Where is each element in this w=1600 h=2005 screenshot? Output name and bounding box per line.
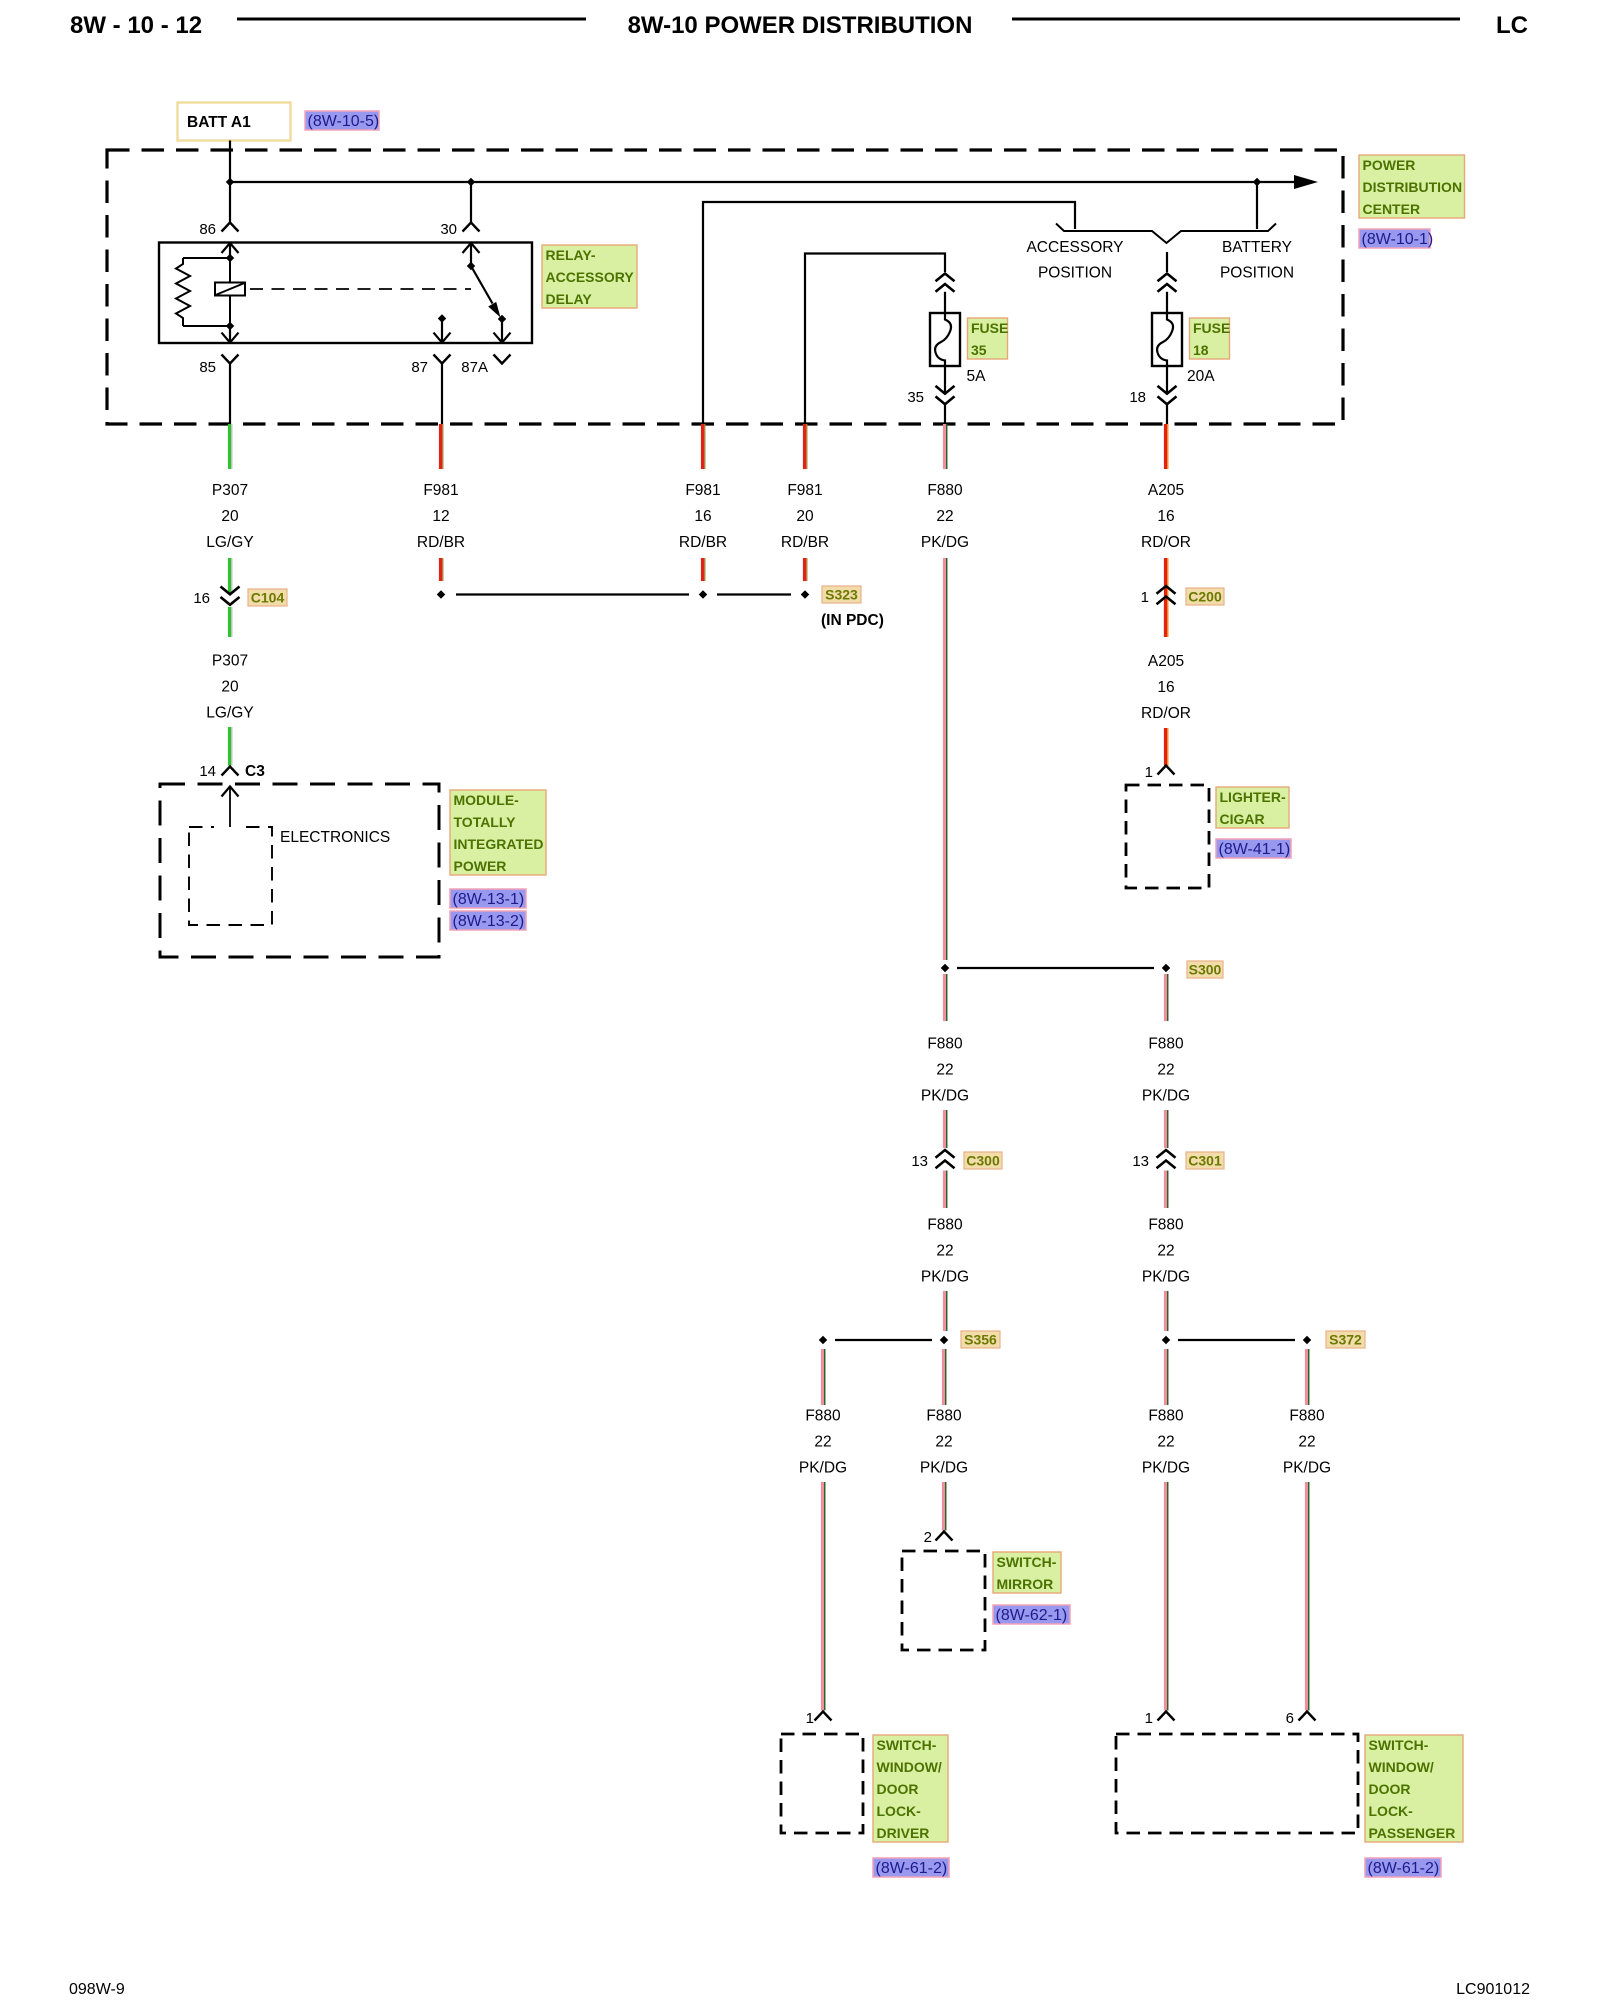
svg-text:FUSE: FUSE bbox=[1193, 320, 1230, 336]
relay switch arm bbox=[471, 266, 493, 304]
svg-text:PK/DG: PK/DG bbox=[799, 1460, 847, 1477]
wire F880 22 from fuse 35 bbox=[943, 424, 946, 469]
relay switch pivot node bbox=[467, 262, 475, 270]
svg-text:RD/OR: RD/OR bbox=[1141, 534, 1191, 551]
svg-text:RD/BR: RD/BR bbox=[781, 534, 829, 551]
svg-text:SWITCH-: SWITCH- bbox=[877, 1737, 937, 1753]
svg-text:C200: C200 bbox=[1188, 589, 1222, 605]
svg-text:18: 18 bbox=[1193, 342, 1209, 358]
wire battery position from bus bbox=[1256, 182, 1258, 229]
svg-text:F880: F880 bbox=[1289, 1408, 1325, 1425]
svg-text:1: 1 bbox=[1145, 764, 1153, 781]
svg-text:22: 22 bbox=[814, 1434, 831, 1451]
svg-text:LG/GY: LG/GY bbox=[206, 705, 253, 722]
pin 6 fork at passenger switch bbox=[1299, 1712, 1316, 1721]
wire F880 22 to mirror switch bbox=[942, 1349, 945, 1405]
svg-text:13: 13 bbox=[911, 1153, 928, 1170]
wire bus to relay pin 30 bbox=[470, 182, 472, 222]
svg-text:POWER: POWER bbox=[1363, 157, 1416, 173]
svg-text:(8W-10-5): (8W-10-5) bbox=[308, 113, 380, 130]
splice node S323 at F981 16 bbox=[699, 590, 707, 598]
svg-text:LOCK-: LOCK- bbox=[1369, 1803, 1414, 1819]
svg-text:C301: C301 bbox=[1188, 1153, 1222, 1169]
svg-text:20A: 20A bbox=[1187, 368, 1215, 385]
reference (8W-10-1) bbox=[1359, 229, 1430, 248]
svg-text:WINDOW/: WINDOW/ bbox=[877, 1759, 942, 1775]
svg-text:(8W-41-1): (8W-41-1) bbox=[1219, 841, 1291, 858]
connector C301 chevrons bbox=[1157, 1150, 1176, 1158]
relay coil bbox=[229, 258, 231, 283]
splice node S356 left bbox=[819, 1336, 827, 1344]
svg-text:098W-9: 098W-9 bbox=[69, 1981, 125, 1998]
pin 30 fork bbox=[463, 223, 480, 232]
svg-text:16: 16 bbox=[1157, 679, 1174, 696]
fuse 35 bbox=[930, 313, 960, 366]
splice node S323 at F981 20 bbox=[801, 590, 809, 598]
label FUSE 18 bbox=[1190, 318, 1230, 359]
svg-text:PASSENGER: PASSENGER bbox=[1369, 1825, 1456, 1841]
svg-text:87: 87 bbox=[411, 359, 428, 376]
svg-text:PK/DG: PK/DG bbox=[1283, 1460, 1331, 1477]
svg-text:22: 22 bbox=[1157, 1062, 1174, 1079]
svg-text:POSITION: POSITION bbox=[1038, 265, 1112, 282]
pin 85 fork bbox=[222, 355, 239, 364]
header rule left bbox=[237, 18, 586, 21]
svg-text:S300: S300 bbox=[1189, 962, 1222, 978]
label LIGHTER-CIGAR bbox=[1216, 787, 1289, 828]
svg-text:(8W-13-2): (8W-13-2) bbox=[453, 913, 525, 930]
svg-text:POSITION: POSITION bbox=[1220, 265, 1294, 282]
svg-text:C104: C104 bbox=[251, 590, 285, 606]
svg-text:F880: F880 bbox=[1148, 1036, 1184, 1053]
connector C300 chevrons bbox=[936, 1150, 955, 1158]
wire F880 22 below C300 bbox=[943, 1171, 946, 1209]
svg-text:30: 30 bbox=[440, 221, 457, 238]
connector C300 bbox=[964, 1152, 1002, 1169]
switch-window/door lock-driver dashed box bbox=[781, 1734, 863, 1833]
splice node S356 right bbox=[940, 1336, 948, 1344]
svg-text:A205: A205 bbox=[1148, 653, 1184, 670]
label SWITCH-WINDOW/DOOR LOCK-DRIVER bbox=[873, 1735, 948, 1842]
svg-text:PK/DG: PK/DG bbox=[921, 1269, 969, 1286]
svg-text:20: 20 bbox=[221, 508, 239, 525]
svg-text:F880: F880 bbox=[927, 1036, 963, 1053]
splice S323 wire bbox=[456, 593, 689, 595]
svg-text:1: 1 bbox=[1145, 1710, 1153, 1727]
svg-text:C300: C300 bbox=[966, 1153, 1000, 1169]
svg-text:22: 22 bbox=[1298, 1434, 1315, 1451]
relay coil branch node bottom bbox=[226, 322, 234, 330]
relay pin 87 arrow bbox=[441, 319, 443, 344]
pin 1 fork at passenger switch bbox=[1158, 1712, 1175, 1721]
svg-text:1: 1 bbox=[1141, 589, 1149, 606]
svg-text:16: 16 bbox=[193, 590, 210, 607]
svg-text:F981: F981 bbox=[423, 482, 458, 499]
battery feed box BATT A1 bbox=[178, 103, 291, 141]
wire relay 85 to PDC edge bbox=[229, 364, 231, 425]
svg-text:SWITCH-: SWITCH- bbox=[997, 1554, 1057, 1570]
wire A205 16 from fuse 18 bbox=[1164, 424, 1167, 469]
svg-text:F880: F880 bbox=[927, 482, 963, 499]
wire F880 22 to passenger switch pin 1 bbox=[1164, 1349, 1167, 1405]
svg-text:FUSE: FUSE bbox=[971, 320, 1008, 336]
svg-text:35: 35 bbox=[907, 389, 924, 406]
svg-text:(IN PDC): (IN PDC) bbox=[821, 612, 884, 629]
wire from BATT A1 bbox=[229, 141, 231, 183]
reference (8W-61-2) driver bbox=[873, 1858, 949, 1877]
reference (8W-13-1) bbox=[450, 889, 526, 908]
wire bus to relay pin 86 bbox=[229, 182, 231, 222]
TIPM pin arrow bbox=[222, 787, 239, 797]
power distribution center dashed boundary bbox=[107, 150, 1343, 424]
svg-text:20: 20 bbox=[796, 508, 814, 525]
pin 87A fork bbox=[494, 355, 511, 364]
ignition switch brace bbox=[1056, 224, 1276, 244]
splice node S300 right bbox=[1162, 964, 1170, 972]
svg-text:(8W-10-1): (8W-10-1) bbox=[1362, 231, 1434, 248]
TIPM electronics inner dashed box bbox=[189, 827, 272, 925]
splice node S323 at F981 12 bbox=[437, 590, 445, 598]
wire F880 22 to passenger switch pin 6 bbox=[1305, 1349, 1308, 1405]
fuse 35 output connector chevrons bbox=[944, 366, 946, 393]
svg-text:C3: C3 bbox=[245, 763, 265, 780]
svg-text:22: 22 bbox=[936, 508, 953, 525]
label FUSE 35 bbox=[968, 318, 1008, 359]
svg-text:ELECTRONICS: ELECTRONICS bbox=[280, 829, 390, 846]
svg-text:8W - 10 - 12: 8W - 10 - 12 bbox=[70, 12, 202, 39]
svg-text:87A: 87A bbox=[461, 359, 488, 376]
splice S300 wire bbox=[957, 967, 1154, 969]
svg-text:PK/DG: PK/DG bbox=[921, 534, 969, 551]
connector C104 bbox=[248, 589, 287, 606]
splice node S372 left bbox=[1162, 1336, 1170, 1344]
svg-text:DRIVER: DRIVER bbox=[877, 1825, 930, 1841]
relay pin 85 arrow bbox=[229, 326, 231, 343]
svg-text:22: 22 bbox=[1157, 1243, 1174, 1260]
svg-text:22: 22 bbox=[1157, 1434, 1174, 1451]
wire P307 lower segment bbox=[228, 607, 231, 637]
svg-text:22: 22 bbox=[936, 1062, 953, 1079]
svg-text:PK/DG: PK/DG bbox=[1142, 1269, 1190, 1286]
pin 14 fork at C3 bbox=[222, 767, 239, 776]
svg-text:F880: F880 bbox=[927, 1217, 963, 1234]
svg-text:22: 22 bbox=[936, 1243, 953, 1260]
svg-text:CENTER: CENTER bbox=[1363, 201, 1421, 217]
svg-text:6: 6 bbox=[1286, 1710, 1294, 1727]
wire F880 22 to driver switch bbox=[821, 1349, 824, 1405]
wire fuse 35 to PDC edge bbox=[944, 405, 946, 425]
pin 86 fork bbox=[222, 223, 239, 232]
wire A205 16 lower segment bbox=[1164, 607, 1167, 637]
switch-window/door lock-passenger dashed box bbox=[1116, 1734, 1358, 1833]
splice S372 wire bbox=[1178, 1339, 1295, 1341]
svg-text:(8W-62-1): (8W-62-1) bbox=[996, 1607, 1068, 1624]
module totally integrated power dashed box bbox=[160, 784, 439, 957]
svg-text:PK/DG: PK/DG bbox=[921, 1088, 969, 1105]
wire relay 87 to PDC edge bbox=[441, 364, 443, 425]
pin 1 fork at lighter bbox=[1158, 766, 1175, 775]
svg-text:P307: P307 bbox=[212, 482, 248, 499]
wire F981 20 feed to fuse 35 bbox=[805, 254, 945, 425]
connector C104 chevrons bbox=[221, 587, 240, 595]
junction node on bus at relay 30 bbox=[467, 178, 475, 186]
splice S300 bbox=[1187, 961, 1223, 978]
relay pin 86 arrow bbox=[222, 243, 239, 253]
svg-text:S372: S372 bbox=[1329, 1332, 1362, 1348]
connector C200 bbox=[1186, 588, 1224, 605]
svg-text:86: 86 bbox=[199, 221, 216, 238]
junction node on bus at battery position bbox=[1253, 178, 1261, 186]
wire F981 12 upper segment bbox=[439, 424, 442, 469]
reference (8W-10-5) bbox=[305, 111, 379, 130]
junction node on bus at relay 86 bbox=[226, 178, 234, 186]
relay contact node 87A bbox=[498, 315, 506, 323]
svg-text:MIRROR: MIRROR bbox=[997, 1576, 1054, 1592]
svg-text:BATTERY: BATTERY bbox=[1222, 239, 1292, 256]
svg-text:16: 16 bbox=[1157, 508, 1174, 525]
svg-text:LOCK-: LOCK- bbox=[877, 1803, 922, 1819]
svg-text:LC: LC bbox=[1496, 12, 1528, 39]
svg-text:(8W-13-1): (8W-13-1) bbox=[453, 891, 525, 908]
wire F981 20 upper segment bbox=[803, 424, 806, 469]
lighter-cigar dashed box bbox=[1126, 785, 1209, 888]
svg-text:SWITCH-: SWITCH- bbox=[1369, 1737, 1429, 1753]
svg-text:TOTALLY: TOTALLY bbox=[454, 814, 517, 830]
relay resistor bbox=[176, 258, 190, 326]
svg-text:F981: F981 bbox=[685, 482, 720, 499]
wire fuse 18 to PDC edge bbox=[1166, 405, 1168, 425]
svg-text:LC901012: LC901012 bbox=[1456, 1981, 1530, 1998]
svg-text:DISTRIBUTION: DISTRIBUTION bbox=[1363, 179, 1463, 195]
reference (8W-41-1) bbox=[1216, 839, 1291, 858]
svg-text:(8W-61-2): (8W-61-2) bbox=[1368, 1860, 1440, 1877]
splice S372 bbox=[1326, 1331, 1365, 1348]
connector C200 chevrons bbox=[1157, 586, 1176, 594]
svg-text:16: 16 bbox=[694, 508, 711, 525]
svg-text:RD/BR: RD/BR bbox=[679, 534, 727, 551]
wire F880 22 below S300 left bbox=[943, 974, 946, 1021]
wire P307 upper segment bbox=[228, 424, 231, 469]
label SWITCH-WINDOW/DOOR LOCK-PASSENGER bbox=[1365, 1735, 1463, 1842]
fuse 18 bbox=[1152, 313, 1182, 366]
relay contact node 87 bbox=[438, 314, 446, 322]
svg-text:DOOR: DOOR bbox=[1369, 1781, 1411, 1797]
svg-text:2: 2 bbox=[924, 1529, 932, 1546]
svg-text:RD/OR: RD/OR bbox=[1141, 705, 1191, 722]
splice node S300 left bbox=[941, 964, 949, 972]
svg-text:22: 22 bbox=[935, 1434, 952, 1451]
relay accessory delay box bbox=[159, 243, 532, 344]
svg-text:LIGHTER-: LIGHTER- bbox=[1220, 789, 1286, 805]
svg-text:85: 85 bbox=[199, 359, 216, 376]
svg-text:DOOR: DOOR bbox=[877, 1781, 919, 1797]
splice node S372 right bbox=[1303, 1336, 1311, 1344]
label POWER DISTRIBUTION CENTER bbox=[1359, 155, 1465, 218]
svg-text:POWER: POWER bbox=[454, 858, 507, 874]
wire F880 22 below C301 bbox=[1164, 1171, 1167, 1209]
svg-text:5A: 5A bbox=[967, 368, 987, 385]
header rule right bbox=[1012, 18, 1460, 21]
relay resistor wire bottom bbox=[183, 325, 230, 327]
svg-text:RELAY-: RELAY- bbox=[546, 247, 596, 263]
relay pin 30 arrow bbox=[463, 243, 480, 253]
svg-text:(8W-61-2): (8W-61-2) bbox=[876, 1860, 948, 1877]
bus wire from BATT A1 bbox=[230, 181, 1296, 183]
wire brace to fuse 18 bbox=[1166, 252, 1168, 272]
reference (8W-62-1) bbox=[993, 1605, 1070, 1624]
svg-text:BATT A1: BATT A1 bbox=[187, 114, 251, 131]
svg-text:13: 13 bbox=[1132, 1153, 1149, 1170]
svg-text:RD/BR: RD/BR bbox=[417, 534, 465, 551]
svg-text:LG/GY: LG/GY bbox=[206, 534, 253, 551]
svg-text:35: 35 bbox=[971, 342, 987, 358]
splice S356 bbox=[961, 1331, 1000, 1348]
svg-text:12: 12 bbox=[432, 508, 449, 525]
svg-text:PK/DG: PK/DG bbox=[1142, 1088, 1190, 1105]
splice S323 bbox=[822, 586, 861, 603]
label RELAY-ACCESSORY DELAY bbox=[542, 245, 637, 308]
label SWITCH-MIRROR bbox=[993, 1552, 1061, 1593]
svg-text:14: 14 bbox=[199, 763, 216, 780]
svg-text:PK/DG: PK/DG bbox=[1142, 1460, 1190, 1477]
fuse 18 output connector chevrons bbox=[1166, 366, 1168, 393]
pin 87 fork bbox=[434, 355, 451, 364]
svg-text:ACCESSORY: ACCESSORY bbox=[1026, 239, 1123, 256]
connector C301 bbox=[1186, 1152, 1224, 1169]
svg-text:F880: F880 bbox=[926, 1408, 962, 1425]
splice S356 wire bbox=[835, 1339, 932, 1341]
svg-text:CIGAR: CIGAR bbox=[1220, 811, 1265, 827]
svg-text:S323: S323 bbox=[825, 587, 858, 603]
svg-text:F880: F880 bbox=[1148, 1217, 1184, 1234]
reference (8W-61-2) passenger bbox=[1365, 1858, 1441, 1877]
svg-text:S356: S356 bbox=[964, 1332, 997, 1348]
relay resistor wire top bbox=[183, 257, 230, 259]
relay pin 87A arrow bbox=[501, 319, 503, 343]
wire F981 16 feed to accessory position bbox=[703, 202, 1075, 424]
svg-text:8W-10 POWER DISTRIBUTION: 8W-10 POWER DISTRIBUTION bbox=[628, 12, 973, 39]
svg-text:P307: P307 bbox=[212, 653, 248, 670]
svg-text:F981: F981 bbox=[787, 482, 822, 499]
svg-text:PK/DG: PK/DG bbox=[920, 1460, 968, 1477]
svg-text:A205: A205 bbox=[1148, 482, 1184, 499]
svg-text:F880: F880 bbox=[805, 1408, 841, 1425]
svg-text:MODULE-: MODULE- bbox=[454, 792, 520, 808]
fuse 18 input connector chevrons bbox=[1158, 274, 1177, 282]
wire F981 16 upper segment bbox=[701, 424, 704, 469]
pin 2 fork at mirror switch bbox=[936, 1532, 953, 1541]
svg-text:18: 18 bbox=[1129, 389, 1146, 406]
switch-mirror dashed box bbox=[902, 1551, 985, 1650]
svg-text:20: 20 bbox=[221, 679, 239, 696]
label MODULE-TOTALLY INTEGRATED POWER bbox=[450, 790, 546, 875]
reference (8W-13-2) bbox=[450, 911, 526, 930]
fuse 35 input connector chevrons bbox=[936, 274, 955, 282]
svg-text:INTEGRATED: INTEGRATED bbox=[454, 836, 544, 852]
svg-text:ACCESSORY: ACCESSORY bbox=[546, 269, 635, 285]
svg-text:DELAY: DELAY bbox=[546, 291, 593, 307]
svg-text:WINDOW/: WINDOW/ bbox=[1369, 1759, 1434, 1775]
relay actuation dashed link bbox=[250, 288, 471, 290]
svg-text:1: 1 bbox=[806, 1710, 814, 1727]
wire F880 22 below S300 right bbox=[1164, 974, 1167, 1021]
svg-text:F880: F880 bbox=[1148, 1408, 1184, 1425]
pin 1 fork at driver switch bbox=[815, 1712, 832, 1721]
relay coil branch node top bbox=[226, 254, 234, 262]
